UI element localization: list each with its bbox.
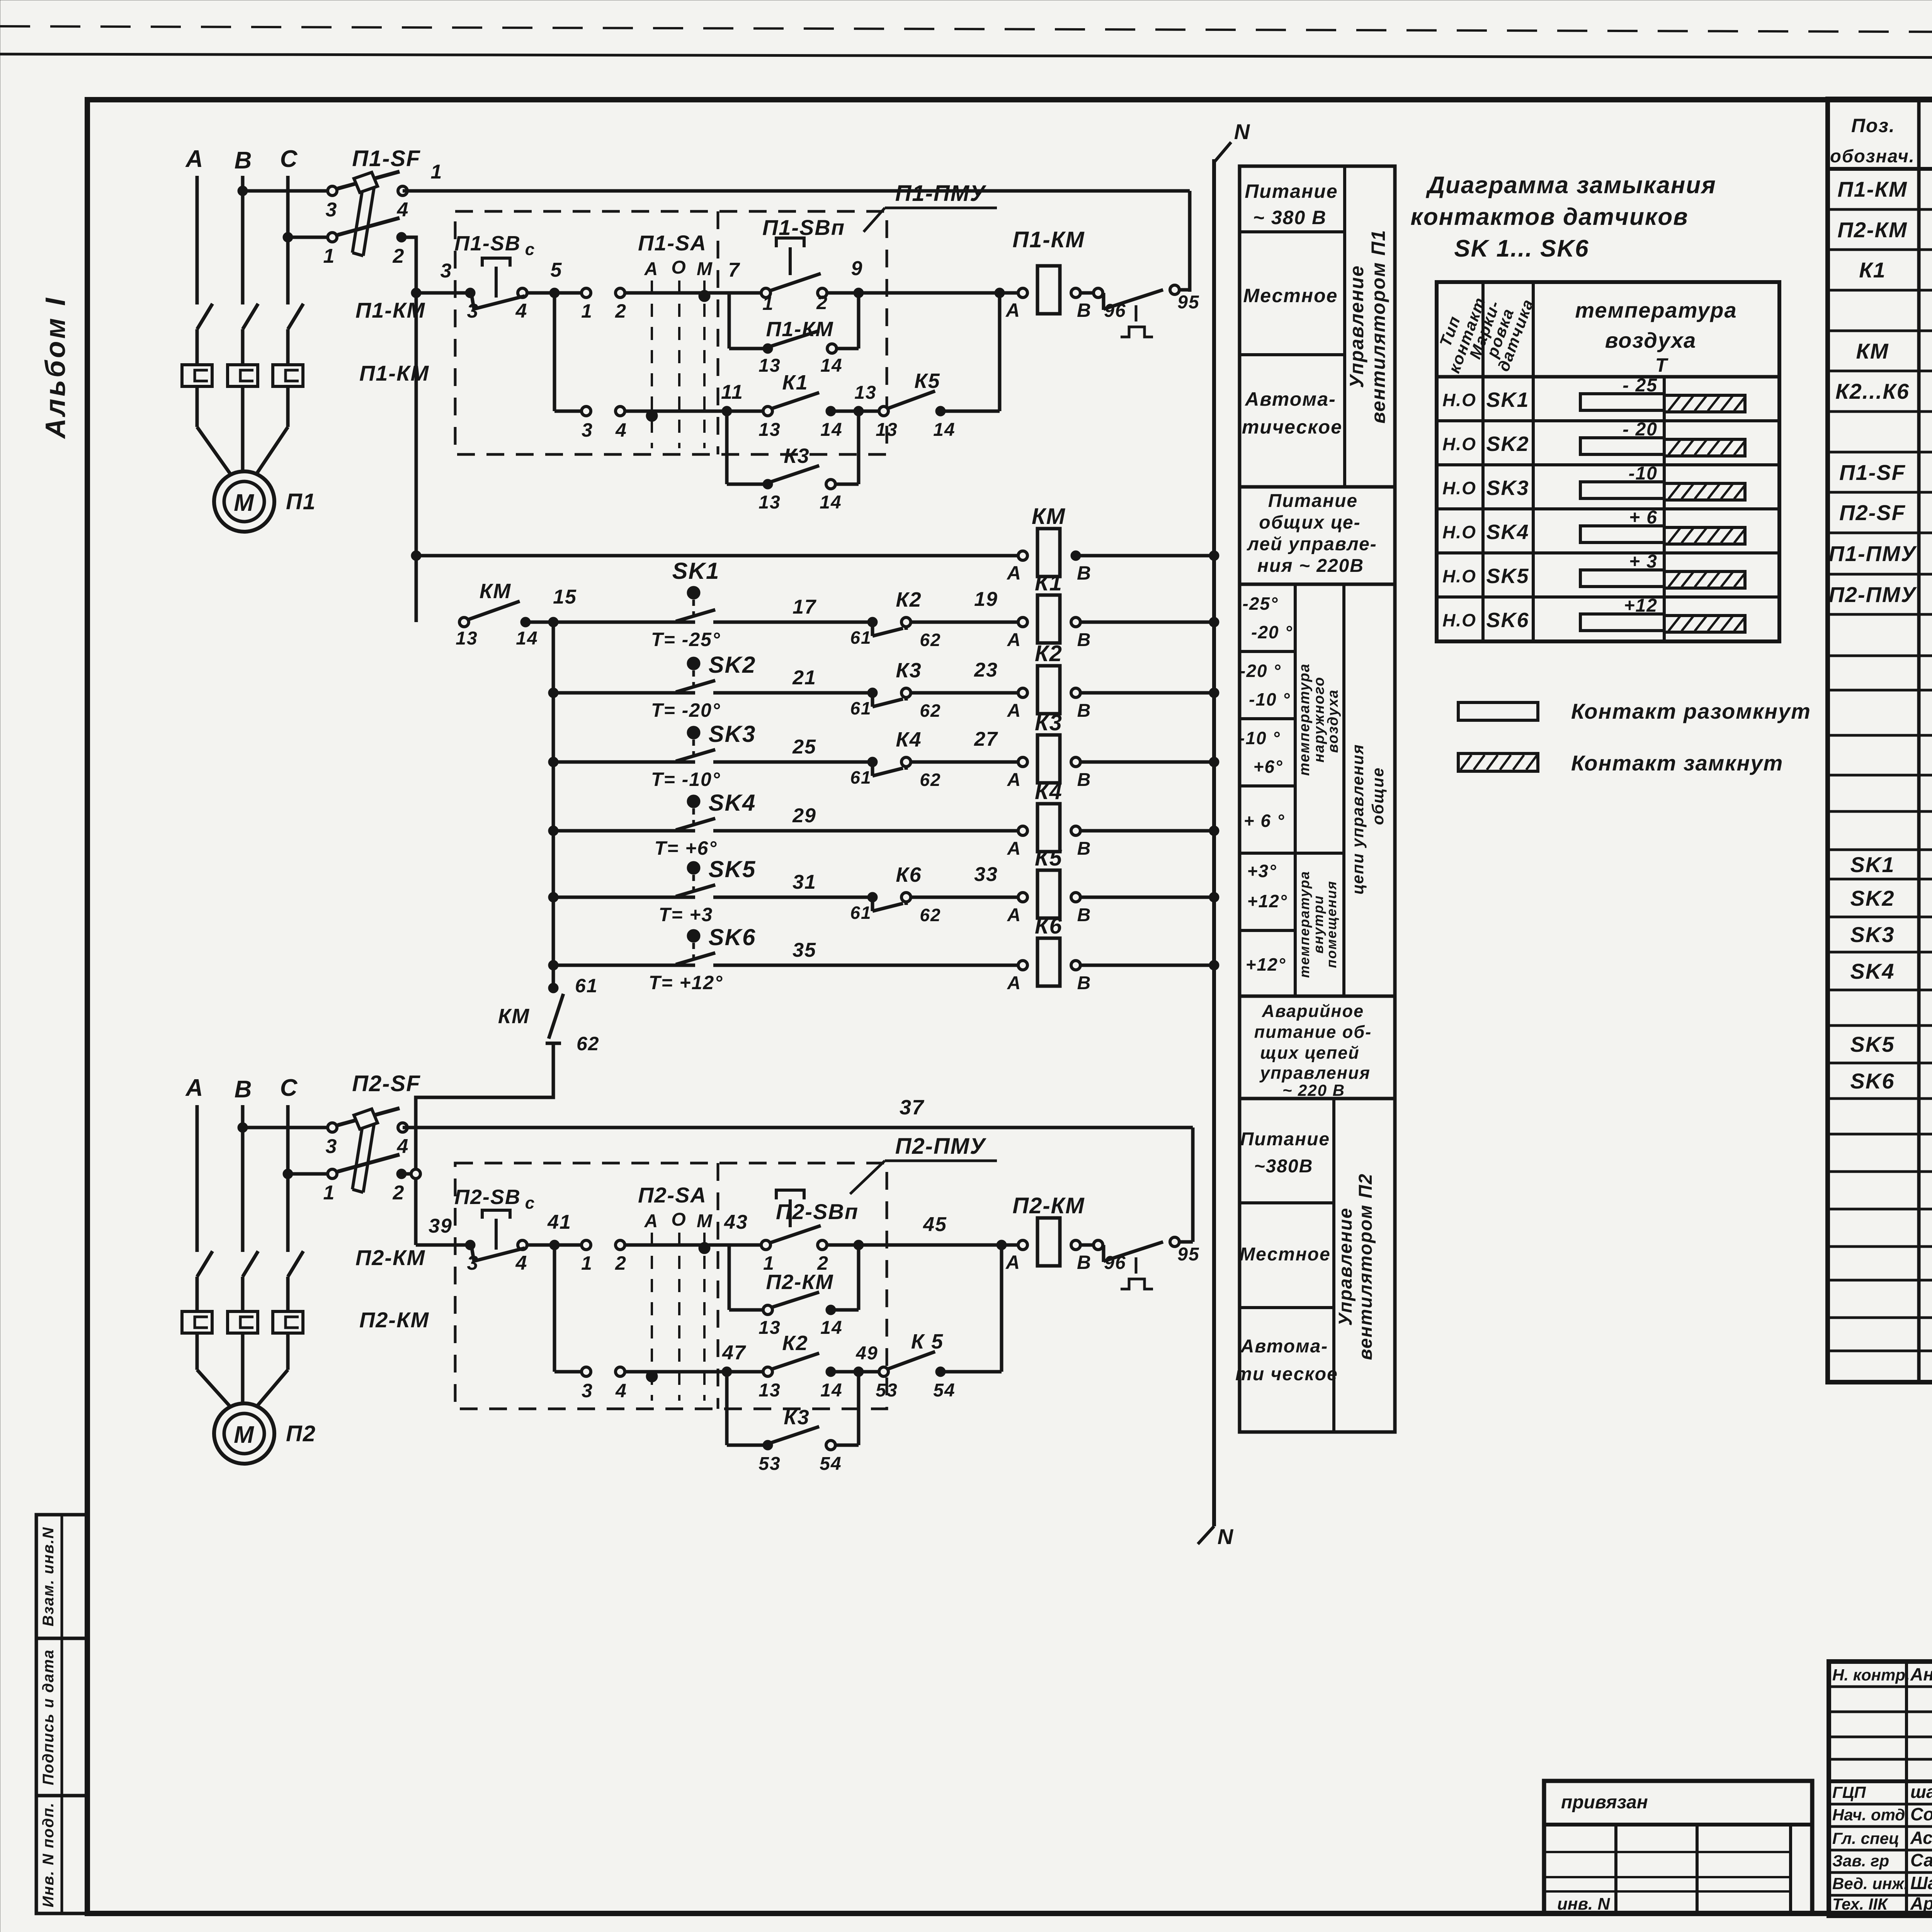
node 9 [854,288,864,298]
svg-text:9: 9 [851,257,863,280]
svg-text:вентилятором П2: вентилятором П2 [1355,1173,1376,1360]
selector П1-SA automatic contact [582,406,591,416]
svg-text:помещения: помещения [1323,881,1339,968]
svg-text:К5: К5 [914,369,940,393]
NC thermal contact 96-95 (П2-КМ) [1094,1240,1103,1250]
node phase B tap [238,186,248,196]
wire КМ coil line [416,554,1020,558]
svg-text:~ 220 В: ~ 220 В [1282,1081,1345,1099]
svg-text:SK4: SK4 [709,790,756,816]
svg-text:П1-КМ: П1-КМ [1012,227,1085,252]
svg-text:КМ: КМ [498,1005,530,1028]
svg-text:Н.О: Н.О [1442,522,1476,542]
node В (П1-КМ coil) [1071,288,1080,298]
svg-text:управления: управления [1259,1063,1371,1083]
svg-text:13: 13 [759,1318,781,1338]
wire to coil К1 [910,621,1020,624]
svg-text:2: 2 [615,1252,627,1274]
svg-text:62: 62 [920,905,941,925]
diagram row SK5 [1437,595,1779,599]
svg-text:П1-ПМУ: П1-ПМУ [895,181,986,206]
wire to П1-SF pole 1 [288,236,328,239]
start button П2-SBп [761,1240,770,1250]
svg-text:SK6: SK6 [709,924,756,950]
relay coil К1 [1037,595,1060,643]
wire line 1 (П1 coil return) [403,189,1190,193]
svg-text:В: В [235,1076,253,1103]
svg-text:+ 6: + 6 [1629,507,1658,528]
svg-text:В: В [1077,770,1092,790]
svg-text:45: 45 [923,1213,947,1236]
wire SA to SBп (П2) [624,1243,766,1247]
node А (КМ coil) [1018,551,1027,560]
svg-text:61: 61 [850,767,871,787]
svg-text:SK3: SK3 [1850,922,1895,947]
svg-text:61: 61 [850,698,871,718]
svg-text:А: А [1007,630,1022,650]
node 4 (П2-SF) [398,1123,407,1132]
svg-text:7: 7 [728,259,740,281]
selector position dot M (П2 manual row) [699,1242,710,1254]
svg-text:3: 3 [326,199,338,221]
svg-text:ния ~ 220В: ния ~ 220В [1257,556,1364,576]
contact КМ 13-14 (feed of sensors bus) [459,617,469,627]
wire 95 to return [1179,288,1190,292]
contact К1 13-14 [763,406,772,416]
node В (coil К6) [1071,961,1080,970]
svg-text:вентилятором П1: вентилятором П1 [1367,230,1389,424]
svg-text:Управление: Управление [1346,265,1367,388]
svg-text:Шавишвили: Шавишвили [1910,1873,1932,1893]
svg-text:49: 49 [855,1343,878,1364]
svg-text:SK4: SK4 [1486,520,1529,544]
self-hold branch wires [728,293,731,349]
svg-text:П1-SА: П1-SА [638,231,707,255]
svg-text:4: 4 [615,419,627,441]
wire return drop to contact 95 [1188,191,1192,292]
svg-text:В: В [1077,299,1092,321]
selector position dot M (manual row) [699,290,710,302]
svg-text:Т: Т [1655,354,1669,376]
svg-text:Т= -20°: Т= -20° [651,699,721,721]
svg-text:1: 1 [323,1182,335,1204]
svg-text:В: В [235,147,253,174]
wire phase C (П1) [286,176,290,304]
wire line 39 (П2 control feed) [416,1243,470,1247]
attachment block [1544,1781,1812,1913]
contactor coil П1-КМ [1037,266,1060,314]
wire row SK5 segment 31 [713,896,869,899]
К3 branch wires [725,411,729,484]
svg-text:А: А [644,259,659,279]
circuit breaker П2-SF [328,1123,337,1132]
svg-text:13: 13 [456,628,478,649]
svg-text:М: М [697,259,713,279]
wire to coil К5 [910,896,1020,899]
svg-text:В: В [1077,905,1092,925]
wire phase C (П2) [286,1105,290,1252]
wire auto row to К2 (П2) [624,1370,765,1374]
svg-text:14: 14 [820,355,842,376]
temperature sensor contact SK2 [548,688,558,698]
wire coil К4 to N bus [1080,829,1214,833]
svg-text:5: 5 [551,259,563,281]
wire line 37 (П2 coil return) [403,1126,1193,1129]
wire КМ coil to N bus [1080,554,1214,558]
svg-text:с: с [525,1194,535,1213]
svg-text:Гл. спец: Гл. спец [1832,1829,1899,1847]
svg-text:контактов датчиков: контактов датчиков [1410,204,1688,230]
svg-text:+3°: +3° [1247,861,1277,881]
svg-text:13: 13 [759,492,781,513]
contact К3 13-14 [763,479,773,489]
svg-text:14: 14 [516,628,538,649]
svg-text:П1-ПМУ: П1-ПМУ [1829,541,1917,566]
wire К5 to control line [940,410,1000,413]
svg-text:П1-КМ: П1-КМ [1837,177,1907,201]
svg-text:Т= -25°: Т= -25° [651,629,721,650]
selector П2-SA automatic contact [582,1367,591,1376]
svg-text:Аварийное: Аварийное [1262,1001,1364,1021]
diagram row SK1 [1437,419,1779,422]
relay coil К6 [1037,938,1060,986]
svg-text:ти ческое: ти ческое [1235,1364,1338,1384]
node 5 [549,288,560,298]
svg-text:Нач. отд.: Нач. отд. [1832,1806,1910,1824]
svg-text:П2-SF: П2-SF [352,1071,420,1096]
wires converging to motor П2 [197,1370,232,1408]
svg-text:N: N [1218,1524,1234,1549]
svg-text:Диаграмма замыкания: Диаграмма замыкания [1425,172,1716,199]
wire coil К1 to N bus [1080,621,1214,624]
wire phase A (П1) [196,176,199,304]
contactor П2-КМ main contacts [197,1251,213,1277]
svg-text:1: 1 [323,245,335,267]
svg-text:96: 96 [1104,1253,1126,1273]
svg-text:4: 4 [515,1252,528,1274]
wire 380V bus to П1-SF pole 3 [243,189,328,193]
svg-text:П1-КМ: П1-КМ [766,318,833,341]
node control line start [411,288,421,298]
wire coil К3 to N bus [1080,760,1214,764]
node В (coil К2) [1071,688,1080,697]
NC contact К3 61-62 [867,688,878,698]
svg-text:Астаянц: Астаянц [1910,1828,1932,1848]
svg-text:А: А [1007,770,1022,790]
svg-text:В: В [1077,1252,1092,1273]
svg-text:П1-SB: П1-SB [454,232,521,255]
svg-text:привязан: привязан [1561,1792,1648,1813]
svg-text:А: А [185,146,204,172]
svg-text:+12°: +12° [1247,891,1287,911]
svg-text:С: С [280,1075,298,1101]
svg-text:В: В [1077,838,1092,859]
node В (КМ coil) [1071,551,1081,561]
svg-text:П1-SF: П1-SF [352,146,420,171]
svg-text:Н.О: Н.О [1442,610,1476,630]
wire row SK1 segment 17 [713,621,869,624]
svg-text:1: 1 [762,293,774,314]
svg-text:SK6: SK6 [1850,1069,1895,1093]
svg-text:SK5: SK5 [1486,565,1529,588]
title block signature columns [1829,1662,1932,1916]
svg-text:П2-КМ: П2-КМ [1012,1193,1085,1218]
wire row SK4 segment 29 [713,829,1020,833]
node В (coil К3) [1071,757,1080,767]
svg-text:К1: К1 [1859,258,1886,282]
svg-text:Зав. гр: Зав. гр [1832,1852,1889,1870]
svg-text:+12: +12 [1624,595,1658,616]
svg-text:П2-КМ: П2-КМ [359,1308,429,1332]
node 2 (П2-SF) [396,1169,406,1179]
svg-text:К2: К2 [1035,641,1063,666]
stop button П1-SBс [465,288,475,298]
svg-text:+ 3: + 3 [1629,551,1658,572]
svg-text:3: 3 [326,1135,338,1158]
self-hold branch wires (П2) [728,1245,731,1310]
svg-text:54: 54 [820,1454,842,1474]
svg-text:К2: К2 [782,1332,808,1355]
contact К3 53-54 (П2) [763,1440,773,1450]
svg-text:В: В [1077,562,1092,584]
svg-text:П2-SА: П2-SА [638,1183,707,1207]
svg-text:27: 27 [974,728,998,750]
svg-text:Т= -10°: Т= -10° [651,769,721,790]
svg-text:А: А [1007,973,1022,993]
svg-text:К2...К6: К2...К6 [1835,379,1910,403]
wire coil К2 to N bus [1080,691,1214,695]
temperature sensor contact SK1 [553,621,676,624]
node КМ coil tap [411,551,421,561]
node А (coil К6) [1018,961,1027,970]
node 45 [854,1240,864,1250]
contactor coil П2-КМ [1037,1218,1060,1266]
wire phase B (П1) [241,176,245,304]
svg-text:37: 37 [900,1096,925,1119]
node phase C tap [283,232,293,242]
svg-text:Н.О: Н.О [1442,478,1476,498]
svg-text:3: 3 [582,1380,593,1401]
svg-text:14: 14 [820,1318,842,1338]
relay coil К3 [1037,735,1060,783]
svg-text:3: 3 [440,260,452,282]
svg-text:П2-ПМУ: П2-ПМУ [1829,582,1917,607]
svg-text:-25°: -25° [1243,594,1279,614]
svg-text:К6: К6 [896,863,922,886]
svg-text:61: 61 [850,628,871,648]
svg-text:К4: К4 [896,728,922,751]
svg-text:Антошина: Антошина [1910,1664,1932,1684]
svg-text:41: 41 [547,1211,571,1233]
svg-text:К4: К4 [1035,779,1063,804]
wire phase B (П2) [241,1105,245,1252]
svg-text:47: 47 [722,1342,746,1364]
wire coil К6 to N bus [1080,964,1214,967]
svg-text:N: N [1234,119,1250,144]
svg-text:М: М [697,1211,713,1231]
svg-text:В: В [1077,701,1092,721]
svg-text:Местное: Местное [1240,1244,1331,1265]
svg-text:С: С [280,146,298,172]
legend open contact [1458,702,1538,720]
svg-text:1: 1 [581,1252,593,1274]
self-hold contact П1-КМ 13-14 [763,344,773,354]
svg-text:К 5: К 5 [911,1330,944,1353]
svg-text:П2-SBп: П2-SBп [776,1199,859,1224]
svg-text:общие: общие [1369,767,1387,825]
node phase B tap (П2) [238,1122,248,1133]
node А (П1-КМ coil) [1018,288,1027,298]
svg-text:Поз.: Поз. [1851,115,1895,136]
svg-text:+ 6 °: + 6 ° [1244,811,1285,831]
svg-text:КМ: КМ [1856,339,1889,363]
contact К5 53-54 (П2) [879,1367,888,1376]
wire SA to SBп [624,291,766,295]
svg-text:2: 2 [393,245,405,267]
wire К2 to К5 (П2) [831,1370,881,1374]
svg-text:31: 31 [793,871,816,893]
svg-text:61: 61 [850,903,871,923]
svg-text:96: 96 [1104,301,1126,321]
wire SBп to node 45 (П2) [825,1243,859,1247]
svg-text:29: 29 [792,804,816,827]
svg-text:щих цепей: щих цепей [1260,1043,1359,1063]
svg-text:39: 39 [429,1215,452,1237]
svg-text:А: А [1007,838,1022,859]
svg-text:Местное: Местное [1243,285,1338,306]
svg-text:Питание: Питание [1268,491,1358,511]
svg-text:3: 3 [467,300,479,322]
svg-text:SK2: SK2 [1850,886,1895,910]
svg-text:33: 33 [974,863,998,886]
relay coil К5 [1037,870,1060,918]
temperature sensor contact SK6 [548,960,558,970]
svg-text:2: 2 [615,300,627,322]
wire 95 to return (П2) [1179,1240,1193,1244]
svg-text:обознач.: обознач. [1830,146,1915,166]
contactor coil КМ [1037,529,1060,577]
svg-text:лей управле-: лей управле- [1247,534,1377,554]
svg-text:1: 1 [581,300,593,322]
svg-text:цепи управления: цепи управления [1349,744,1367,895]
svg-text:К3: К3 [896,659,922,682]
svg-text:А: А [1006,562,1022,584]
svg-text:4: 4 [397,199,409,221]
svg-text:62: 62 [577,1033,600,1054]
svg-text:SK1: SK1 [1486,388,1529,412]
svg-text:Подпись и дата: Подпись и дата [40,1649,57,1785]
svg-text:SK4: SK4 [1850,959,1895,983]
svg-text:13: 13 [759,420,781,440]
temperature sensor contact SK5 [548,892,558,902]
svg-text:Инв. N подп.: Инв. N подп. [40,1802,57,1907]
svg-text:Альбом I: Альбом I [40,296,71,439]
svg-text:Управление: Управление [1335,1207,1356,1326]
NC contact К6 61-62 [867,892,878,902]
svg-text:А: А [1007,701,1022,721]
svg-text:62: 62 [920,770,941,790]
wire to coil К3 [910,760,1020,764]
svg-text:SK3: SK3 [709,721,756,747]
diagram row SK2 [1437,463,1779,466]
sensor sub-bus [552,622,555,985]
svg-text:КМ: КМ [1032,504,1066,529]
dashed box П2-ПМУ [455,1163,887,1409]
svg-text:13: 13 [876,420,898,440]
node В (coil К1) [1071,617,1080,627]
svg-text:М: М [234,1422,255,1448]
temperature sensor contact SK3 [548,757,558,767]
diagram row SK4 [1437,551,1779,554]
contact К2 13-14 (П2) [763,1367,772,1376]
wire node9 to coil А [859,291,1020,295]
svg-text:21: 21 [792,667,816,689]
svg-text:53: 53 [759,1454,781,1474]
selector position dashed lines (П2-SA) [651,1233,653,1401]
svg-text:А: А [644,1211,659,1231]
node В (coil К5) [1071,893,1080,902]
svg-text:температура: температура [1296,663,1313,776]
thermal overload П2-КМ [182,1311,212,1333]
svg-text:3: 3 [582,419,593,441]
svg-text:54: 54 [933,1380,955,1401]
top edge dashed line [0,26,1932,34]
svg-text:А: А [1007,905,1022,925]
automatic row branch wire [553,293,556,411]
svg-text:П2-SF: П2-SF [1839,500,1906,525]
svg-text:О: О [671,257,686,278]
svg-text:35: 35 [793,939,816,961]
svg-text:-20 °: -20 ° [1251,622,1293,642]
svg-text:П2-КМ: П2-КМ [766,1270,833,1294]
wire bus to П2-SF pole 3 [243,1126,328,1129]
circuit breaker П1-SF [328,186,337,196]
svg-text:62: 62 [920,701,941,721]
wire node45 to coil А (П2) [859,1243,1020,1247]
svg-text:К5: К5 [1035,845,1063,871]
svg-text:25: 25 [792,736,816,758]
node А (coil К4) [1018,826,1027,835]
svg-text:П1-SBп: П1-SBп [762,215,845,240]
NC contact К4 61-62 [867,757,878,767]
svg-text:П2: П2 [286,1421,316,1446]
contact К5 13-14 [879,406,888,416]
selector П2-SA manual contact [582,1240,591,1250]
svg-text:2: 2 [816,292,828,313]
svg-text:4: 4 [515,300,528,322]
diagram row SK3 [1437,507,1779,510]
svg-text:А: А [1005,1252,1020,1273]
svg-text:95: 95 [1177,292,1199,313]
relay coil К2 [1037,666,1060,714]
wire П1 control line segment 3 [416,291,470,295]
svg-text:температура: температура [1296,871,1312,978]
legend closed contact [1458,753,1538,771]
svg-text:4: 4 [397,1135,409,1158]
svg-text:Н.О: Н.О [1442,566,1476,586]
stop button П2-SBс [465,1240,475,1250]
svg-text:-10 °: -10 ° [1249,689,1291,709]
svg-text:61: 61 [575,975,598,997]
svg-text:Тех. IIК: Тех. IIК [1832,1895,1889,1913]
wire coil В to contact 96 (П2) [1080,1243,1098,1247]
svg-text:К3: К3 [1035,710,1063,735]
node А (coil К5) [1018,893,1027,902]
svg-text:П1-SF: П1-SF [1839,460,1906,485]
dashed box П1-ПМУ [455,211,887,454]
wire КМ 62 to П2 feed [416,1043,553,1245]
svg-text:К2: К2 [896,588,922,611]
